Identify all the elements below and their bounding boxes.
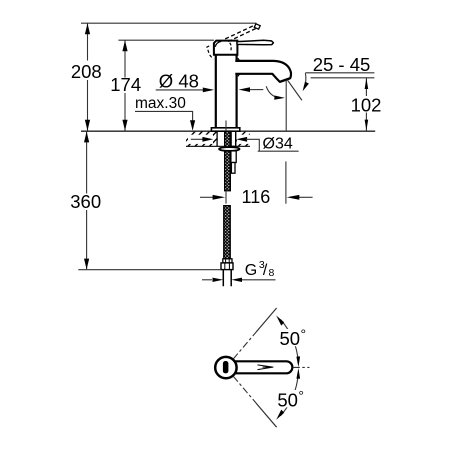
extension line cap top level: [118, 39, 213, 41]
svg-text:360: 360: [70, 191, 101, 212]
top view: lower ray dashed: [233, 376, 257, 405]
counter top line: [81, 130, 375, 132]
threaded shank: [225, 131, 231, 190]
hose fitting lower: [231, 163, 235, 174]
svg-text:Ø 48: Ø 48: [159, 71, 199, 92]
hose fitting in hole: [231, 131, 235, 146]
svg-text:Ø34: Ø34: [263, 136, 293, 153]
hose fitting upper: [231, 151, 236, 163]
upper arc arrowhead at ray: [276, 316, 284, 326]
dimension 208 line: [87, 23, 89, 131]
label max.30 down arrow at counter: [190, 120, 195, 131]
extension line spout-outlet level: [311, 77, 375, 79]
top view: lower 50 deg arc: [281, 373, 299, 416]
svg-text:50: 50: [277, 389, 298, 410]
dimension 102 line: [365, 78, 367, 96]
extension line hose end level: [78, 269, 221, 271]
axis line in body: [225, 121, 227, 132]
dimension 174 bottom arrow: [122, 120, 127, 131]
svg-text:max.30: max.30: [135, 95, 186, 112]
top view: handle stadium: [233, 361, 292, 373]
dimension 360 bottom arrow: [84, 259, 89, 270]
dimension 208 text: [70, 61, 103, 81]
spout stream axis line lower: [285, 161, 287, 203]
dimension 116 right arrow: [298, 196, 313, 198]
white halo for D34 dimension line: [188, 135, 213, 144]
stream alternate angle line: [287, 80, 302, 101]
dashed lever lowered tip at cap left: [207, 46, 213, 59]
top view: centerline right of handle: [293, 366, 310, 368]
white gap behind upper 50 label: [279, 329, 308, 346]
top view: lever slot: [223, 361, 229, 373]
dashed lever raised position line A: [225, 24, 256, 39]
D48 left-pointing arrow at body right edge: [239, 87, 250, 92]
svg-text:174: 174: [110, 74, 141, 95]
label max.30 underline: [135, 111, 193, 122]
D48 opposing arrow line right side: [250, 89, 263, 91]
G3/8 pipe nipple: [223, 270, 231, 287]
top view: upper ray solid: [257, 308, 277, 331]
lever rod: [237, 40, 273, 45]
fillet bottom of spout joint: [238, 74, 242, 77]
dimension G3/8 right arrow: [241, 279, 276, 281]
dimension 360 text: [69, 194, 102, 211]
label 25-45 underline: [305, 72, 374, 74]
braided flex hose: [224, 206, 231, 259]
dimension 116 left arrow: [200, 196, 214, 198]
top view: upper ray dashed: [233, 330, 257, 359]
dimension 360 line: [86, 132, 88, 270]
leader arc from 25-45 to stream: [304, 73, 306, 87]
label D48 underline and leader: [156, 89, 204, 91]
cartridge cap: [214, 41, 238, 55]
lower arc arrowhead at ray: [276, 410, 284, 420]
top view: upper 50 deg arc: [281, 320, 299, 363]
faucet body left edge: [215, 54, 217, 128]
dimension 208 top arrow: [85, 23, 90, 34]
base escutcheon: [211, 128, 239, 131]
svg-text:°: °: [298, 387, 304, 403]
leader arc arrowhead: [303, 82, 309, 92]
svg-text:50: 50: [280, 328, 301, 349]
svg-text:102: 102: [351, 94, 382, 115]
svg-text:°: °: [301, 326, 307, 342]
mounting washer: [219, 147, 240, 151]
dashed lever tip cap: [254, 24, 260, 29]
top view: handle ridge wedge: [258, 365, 274, 370]
white gap behind lower 50 label: [276, 390, 305, 407]
dimension 174 text: [111, 78, 141, 94]
counter bottom line: [186, 145, 250, 147]
dimension 174 top arrow: [122, 40, 127, 51]
upper arc arrowhead at centerline: [296, 356, 300, 367]
stream swivel arc arrow: [266, 86, 278, 97]
top view: lower ray solid: [257, 404, 277, 427]
dimension 360 top arrow: [84, 132, 89, 143]
svg-text:8: 8: [269, 267, 275, 279]
svg-text:25 - 45: 25 - 45: [313, 54, 371, 75]
label D48 right-pointing arrow at body left edge: [203, 88, 214, 93]
svg-text:208: 208: [71, 61, 102, 82]
dimension G3/8 left arrow: [202, 279, 212, 281]
spout stream axis line upper: [285, 81, 287, 132]
dimension D34 right arrow and leader: [236, 137, 247, 142]
faucet body right edge: [236, 54, 238, 128]
svg-text:/: /: [263, 262, 268, 279]
extension line top (lever top level): [81, 22, 257, 24]
fillet top of spout joint: [238, 58, 242, 61]
dashed arc of lever travel in cap: [230, 43, 232, 51]
counter section hatching: [180, 131, 261, 148]
hose hex nut: [221, 263, 233, 270]
dimension 208 bottom arrow: [85, 120, 90, 131]
hole right edge: [235, 131, 237, 146]
dimension 174 line: [124, 40, 126, 131]
dashed lever raised position line B: [228, 27, 258, 41]
axis tick between shank and hose: [225, 191, 227, 204]
hose ferrule: [223, 259, 232, 263]
top view: faucet circle: [215, 357, 236, 378]
spout: [235, 61, 291, 82]
lower arc arrowhead at centerline: [296, 368, 300, 379]
svg-text:G: G: [245, 262, 257, 279]
spout mouth face: [280, 78, 290, 82]
dimension D34 left arrow: [191, 138, 204, 140]
dimension 102 bottom needle arrow: [365, 120, 369, 131]
dimension 102 top needle arrow: [365, 78, 369, 89]
cap inner curve: [215, 41, 221, 46]
hole left edge: [216, 131, 218, 146]
svg-text:116: 116: [242, 187, 271, 207]
